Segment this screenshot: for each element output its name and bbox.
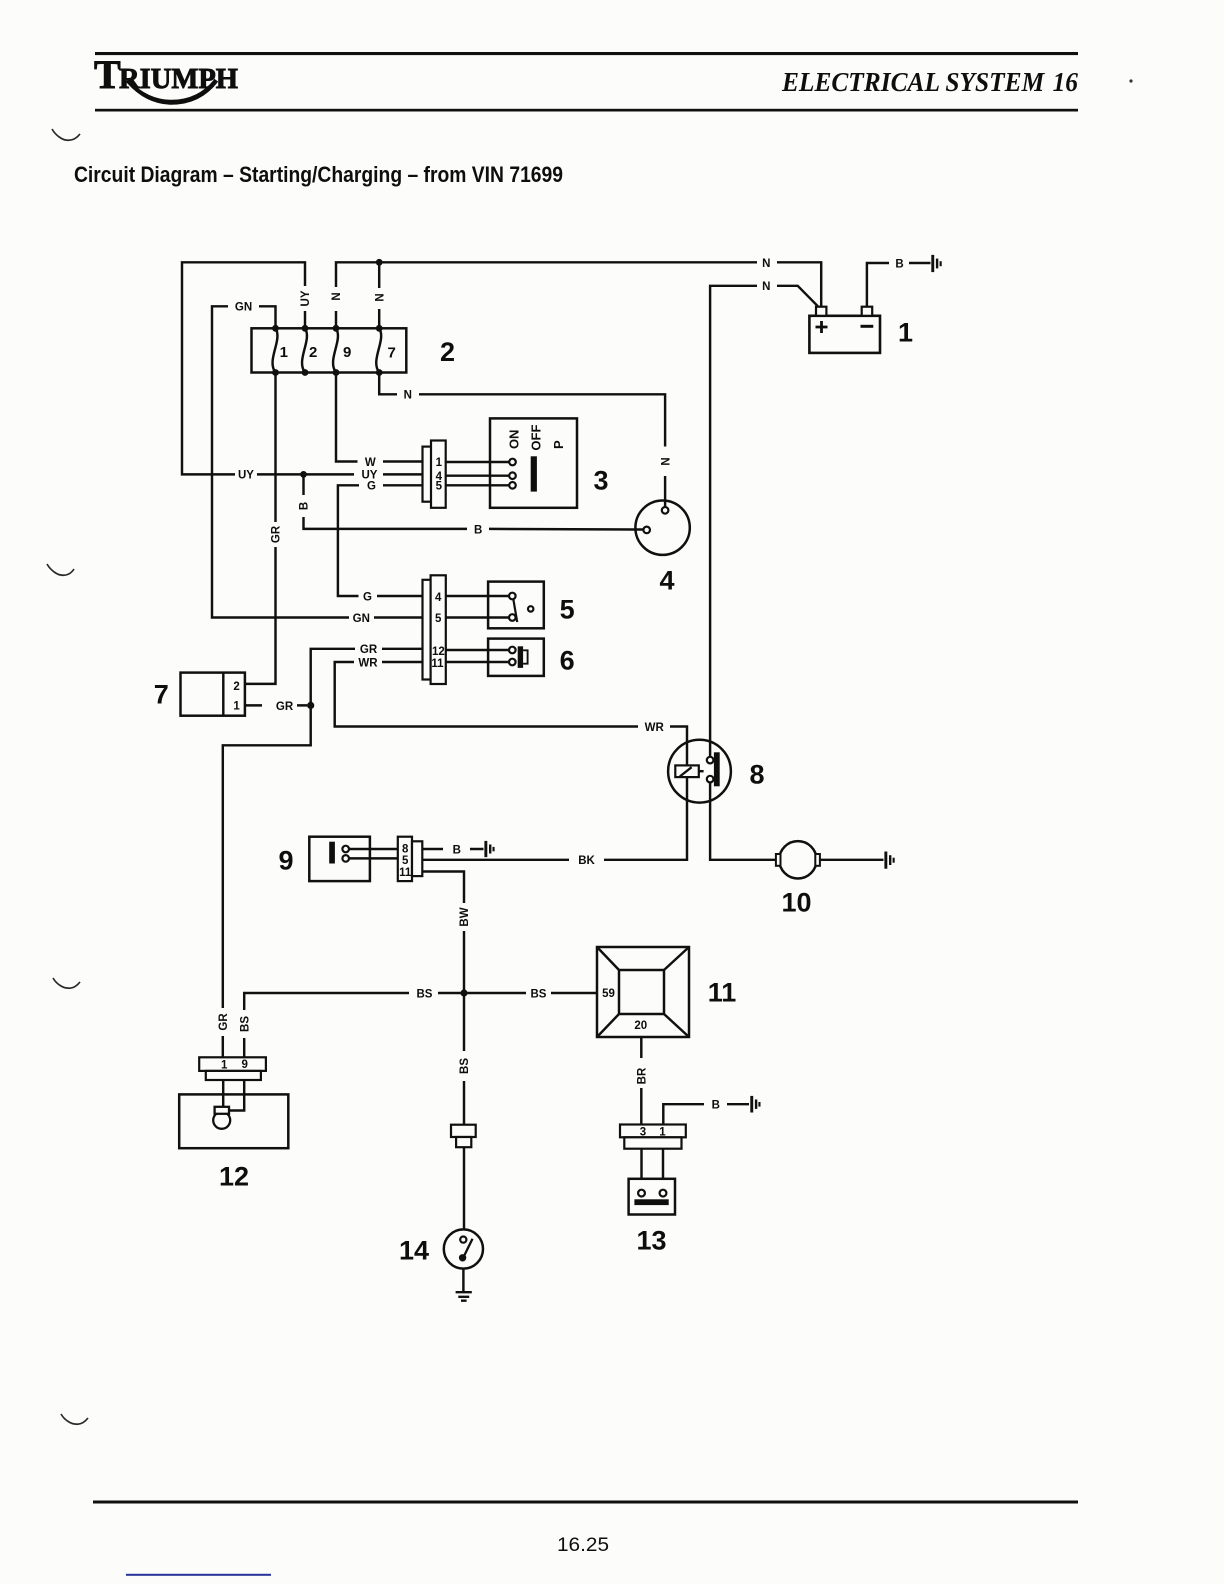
ignition switch contact 4 (509, 472, 516, 479)
wire G: ignition pin 5 to lower connector pin 4 (338, 485, 423, 596)
connector (starter button) front shell (398, 837, 412, 881)
wire N: fuse 9 top up to top rail (336, 262, 379, 328)
svg-text:N: N (404, 390, 412, 402)
lamp wires from connector into box (223, 1080, 244, 1111)
switch 5 box (488, 582, 544, 629)
Triumph logo swash (128, 79, 216, 102)
svg-text:B: B (895, 258, 903, 270)
component 7 box (181, 673, 245, 716)
svg-text:ELECTRICAL SYSTEM 16: ELECTRICAL SYSTEM 16 (781, 66, 1078, 97)
svg-text:9: 9 (241, 1059, 247, 1071)
ignition switch wiper bar (531, 456, 537, 491)
earth ground symbol (kickstand) (456, 1292, 472, 1301)
svg-text:N: N (331, 292, 343, 300)
battery 1 body (809, 316, 880, 353)
scanner margin mark 2 (47, 564, 74, 575)
svg-text:5: 5 (436, 481, 443, 493)
ground symbol (starter motor) (884, 852, 894, 869)
ignition switch contact 1 (509, 459, 516, 466)
svg-text:14: 14 (399, 1236, 429, 1266)
kickstand connector 14 lower shell (456, 1137, 471, 1147)
svg-text:W: W (365, 457, 376, 469)
wire N battery positive to long down rail to relay (710, 286, 818, 757)
connector (switch 5 / connector 6) front shell (431, 575, 446, 684)
starter motor left brush tab (776, 854, 781, 866)
svg-text:5: 5 (435, 613, 442, 625)
sensor 13 box (629, 1179, 675, 1215)
component 6 contact top (509, 647, 516, 654)
top rule line (95, 52, 1078, 55)
ground symbol (sensor) (750, 1096, 760, 1113)
wire B: battery negative to ground (867, 263, 931, 307)
svg-text:13: 13 (636, 1226, 666, 1256)
svg-text:9: 9 (343, 344, 351, 361)
relay upper contact (707, 757, 714, 764)
svg-text:8: 8 (402, 843, 409, 855)
wire N top rail to battery positive (379, 262, 821, 306)
svg-text:1: 1 (898, 318, 913, 348)
connector (switch 5 / connector 6) back shell (423, 580, 436, 680)
svg-text:7: 7 (388, 345, 396, 362)
svg-text:11: 11 (708, 978, 737, 1008)
svg-text:GR: GR (271, 525, 283, 543)
ground symbol (battery) (931, 255, 941, 272)
wires connector 13 down to sensor 13 (642, 1149, 664, 1179)
svg-text:WR: WR (358, 657, 378, 669)
wires connector to component 6 contacts (446, 650, 509, 662)
svg-text:BK: BK (578, 855, 595, 867)
svg-text:9: 9 (278, 846, 293, 876)
lamp bulb glass circle (213, 1112, 230, 1129)
ground symbol (starter button) (484, 841, 494, 857)
svg-text:BS: BS (239, 1016, 251, 1032)
svg-text:UY: UY (300, 290, 312, 306)
svg-text:8: 8 (749, 760, 764, 790)
svg-text:BW: BW (459, 907, 471, 926)
svg-text:1: 1 (233, 700, 240, 712)
svg-text:BR: BR (637, 1067, 649, 1084)
svg-text:5: 5 (402, 855, 409, 867)
switch 5 lever (513, 599, 517, 622)
node: UY/B junction dot at fuse2 drop (300, 471, 307, 478)
wire GR: fuse 1 bottom down to component 7 pin 2 (245, 373, 276, 684)
svg-text:12: 12 (219, 1162, 249, 1192)
wire N: fuse 7 bottom right and down to alternator 4 (379, 373, 665, 508)
second rule line (95, 109, 1078, 112)
svg-text:BS: BS (417, 988, 433, 1000)
node: BS junction dot (460, 989, 467, 996)
wires starter button contacts to connector (349, 849, 398, 858)
Triumph logo wordmark (94, 52, 238, 97)
connector 13 top shell (620, 1125, 686, 1138)
wire BS: connector down to kickstand switch (463, 1147, 465, 1229)
wire: kickstand switch to earth ground (462, 1269, 464, 1291)
starter button contact bottom (342, 855, 349, 862)
stray ink speck right margin (1129, 79, 1132, 82)
wire B: button pin 8 to ground (422, 848, 483, 850)
svg-text:GR: GR (218, 1013, 230, 1031)
svg-text:GR: GR (360, 644, 378, 656)
svg-text:OFF: OFF (528, 425, 543, 451)
svg-text:ON: ON (507, 430, 522, 450)
svg-text:3: 3 (593, 466, 608, 496)
node: top rail junction dot above fuse 7 (376, 259, 383, 266)
svg-text:P: P (551, 440, 566, 449)
svg-text:Circuit Diagram – Starting/Cha: Circuit Diagram – Starting/Charging – fr… (74, 162, 563, 187)
svg-text:5: 5 (560, 595, 575, 625)
scanner margin mark 1 (52, 129, 80, 140)
control unit 11 inner box (619, 970, 664, 1014)
node: GR junction dot (307, 702, 314, 709)
svg-text:20: 20 (634, 1020, 647, 1032)
connector (ignition) front shell (431, 441, 446, 508)
svg-text:12: 12 (432, 646, 445, 658)
svg-text:4: 4 (435, 592, 442, 604)
svg-text:WR: WR (645, 722, 665, 734)
switch 5 contact top (509, 593, 516, 600)
relay coil right stub (699, 770, 704, 772)
connector 13 lower shell (624, 1137, 681, 1148)
kickstand switch pivot dot (459, 1254, 466, 1261)
switch 5 contact bottom (509, 614, 516, 621)
lamp bulb base (215, 1107, 229, 1114)
svg-text:B: B (474, 524, 482, 536)
svg-text:BS: BS (459, 1058, 471, 1074)
warning lamp 12 box (179, 1094, 288, 1148)
svg-text:B: B (453, 844, 461, 856)
battery minus sign (861, 325, 874, 328)
svg-text:1: 1 (280, 344, 288, 361)
svg-text:7: 7 (154, 680, 169, 710)
wire GN: bracket to fuse 1 top and long left drop (212, 306, 423, 617)
svg-text:11: 11 (431, 658, 444, 670)
fuse 9 element (333, 328, 338, 372)
svg-text:T: T (94, 52, 121, 97)
kickstand connector 14 top shell (451, 1125, 476, 1137)
kickstand switch top contact (460, 1237, 466, 1243)
component 6 box (488, 639, 544, 676)
fuse 7 element (376, 328, 381, 372)
starter button contact top (342, 846, 349, 853)
wire: relay coil bottom down and left (BK net) (422, 777, 687, 860)
fuse bottom junction dots (272, 369, 383, 376)
ignition switch contact 5 (509, 482, 516, 489)
sensor 13 element bar (634, 1199, 668, 1205)
alternator top contact (662, 507, 669, 514)
alternator 4 circle (635, 501, 689, 555)
svg-text:1: 1 (436, 457, 443, 469)
component 7 divider (222, 673, 224, 716)
connector (ignition) back shell (423, 447, 434, 502)
svg-text:GR: GR (276, 701, 294, 713)
lamp connector 12 top shell (199, 1057, 266, 1071)
svg-text:11: 11 (399, 867, 412, 879)
component 6 element bar (518, 646, 523, 668)
svg-text:10: 10 (781, 888, 811, 918)
sensor 13 right terminal (660, 1190, 667, 1197)
control unit diagonal top-right (664, 947, 689, 970)
switch 5 pivot circle (528, 606, 533, 611)
ignition switch 3 box (490, 418, 577, 507)
svg-text:1: 1 (221, 1059, 228, 1071)
wire WR: connector pin 11 left, down, right to relay coil (335, 662, 687, 765)
battery plus sign (816, 321, 828, 333)
svg-text:G: G (367, 481, 376, 493)
wire BR: control unit pin 20 down to connector 13 (640, 1037, 642, 1125)
svg-text:16.25: 16.25 (557, 1535, 609, 1556)
fuse 2 element (302, 328, 307, 372)
svg-text:GN: GN (353, 613, 370, 625)
wires connector to ignition switch contacts (446, 462, 510, 485)
starter motor 10 circle (779, 841, 816, 878)
wire B: from UY junction down then right to alternator 4 (304, 474, 644, 529)
wires connector to switch 5 contacts (446, 596, 509, 618)
wire GR: junction down, jog left, long drop to lamp connector pin 1 (223, 705, 311, 1057)
svg-text:N: N (762, 281, 770, 293)
wire BW: button pin 11 right then down to BS junction (422, 872, 464, 994)
svg-text:B: B (299, 502, 311, 510)
svg-text:2: 2 (233, 681, 239, 693)
wire B: connector 13 pin 1 up and right to ground (663, 1104, 749, 1124)
svg-text:4: 4 (659, 566, 674, 596)
starter button element bar (329, 842, 335, 864)
relay lower contact (707, 776, 714, 783)
svg-text:N: N (374, 293, 386, 301)
control unit 11 outer box (597, 947, 689, 1037)
wire BS: junction down to kickstand switch connector (463, 993, 465, 1125)
kickstand switch 14 circle (444, 1229, 483, 1268)
svg-text:3: 3 (640, 1127, 646, 1139)
svg-text:G: G (363, 591, 372, 603)
scanner margin mark 3 (53, 978, 80, 988)
wire UY: fuse 2 top up, left, down left side to UY row (182, 262, 423, 474)
battery negative terminal post (862, 307, 873, 316)
control unit diagonal bottom-right (664, 1014, 689, 1037)
svg-text:N: N (762, 258, 770, 270)
svg-text:2: 2 (440, 337, 455, 367)
relay coil box (675, 765, 699, 777)
bottom rule line (93, 1501, 1078, 1504)
wire: starter motor to ground (820, 859, 884, 861)
scanner margin mark 4 (61, 1414, 88, 1424)
wire GR: component 7 pin 1 to junction, up to connector pin 12 (245, 649, 423, 706)
svg-text:UY: UY (238, 470, 254, 482)
sensor 13 left terminal (638, 1190, 645, 1197)
relay coil diagonal (680, 767, 692, 776)
svg-text:RIUMPH: RIUMPH (119, 63, 238, 95)
wire N: fuse 7 top up with junction (378, 262, 380, 328)
wire BS horizontal: lamp connector pin 9 up and right to control unit 11 (244, 993, 597, 1057)
svg-text:BS: BS (531, 988, 547, 1000)
svg-text:GN: GN (235, 302, 252, 314)
svg-text:59: 59 (602, 988, 615, 1000)
connector (starter button) back shell (412, 841, 422, 876)
alternator left contact (643, 527, 650, 534)
svg-text:N: N (660, 457, 672, 465)
svg-text:2: 2 (309, 344, 317, 361)
fuse 1 element (273, 328, 278, 372)
component 6 contact bottom (509, 659, 516, 666)
starter button 9 box (309, 837, 370, 881)
fuse box 2 outline (252, 328, 407, 372)
relay 8 circle (668, 740, 731, 803)
wire W: fuse 9 bottom to connector pin 1 (336, 373, 423, 462)
fuse top junction dots (272, 325, 383, 332)
blue pen line bottom left (126, 1574, 271, 1576)
control unit diagonal bottom-left (597, 1014, 619, 1037)
component 6 element bracket (523, 650, 528, 663)
svg-text:B: B (712, 1100, 720, 1112)
svg-text:6: 6 (560, 646, 575, 676)
svg-text:1: 1 (659, 1126, 666, 1138)
relay contact bar (714, 752, 720, 786)
kickstand switch lever (464, 1239, 472, 1256)
control unit diagonal top-left (597, 947, 619, 970)
wire: relay lower contact down then right to starter motor (710, 782, 776, 859)
battery positive terminal post (816, 307, 826, 316)
lamp connector 12 lower shell (206, 1071, 261, 1080)
starter motor right brush tab (815, 854, 820, 866)
